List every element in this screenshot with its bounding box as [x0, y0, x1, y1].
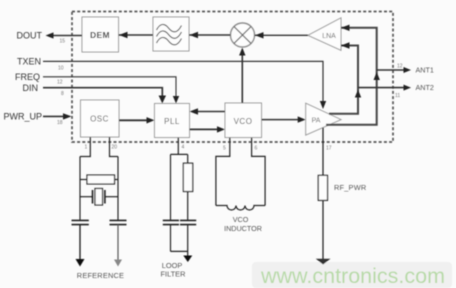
svg-text:17: 17 — [326, 146, 332, 152]
label REFERENCE — [77, 271, 124, 280]
block OSC — [81, 100, 120, 137]
pin 1 — [85, 145, 88, 151]
svg-text:12: 12 — [397, 64, 403, 70]
block DEM — [82, 17, 119, 52]
ground RF_PWR — [316, 259, 331, 265]
svg-text:ANT2: ANT2 — [416, 83, 434, 92]
chip dashed border — [72, 12, 393, 143]
wire ANT2 with arrow — [358, 85, 411, 91]
label RF_PWR — [334, 183, 366, 192]
resistor loop filter — [183, 163, 192, 191]
wire loop filter right column upper — [187, 154, 189, 163]
ground reference left — [76, 259, 85, 267]
label DOUT — [17, 31, 43, 41]
svg-text:DEM: DEM — [90, 30, 110, 40]
wire loop filter top tee — [171, 153, 188, 155]
wire loop filter left column — [170, 154, 172, 220]
wire RF_PWR pin from PA — [322, 128, 324, 176]
wire PLL pin 4 — [177, 138, 179, 155]
wire PLL to VCO with arrow — [190, 126, 226, 132]
svg-text:TXEN: TXEN — [17, 57, 41, 67]
block filter (bandpass) — [153, 17, 189, 51]
pin 11 (ANT2) — [395, 93, 400, 99]
svg-text:REFERENCE: REFERENCE — [77, 271, 124, 280]
wire TXEN to PA — [43, 61, 326, 109]
wire PWR_UP arrow into chip — [43, 113, 72, 119]
pin 6 — [255, 146, 258, 152]
wire OSC to PLL with arrow — [119, 117, 155, 123]
svg-text:ANT1: ANT1 — [416, 66, 434, 75]
pin 12 (ANT1) — [397, 64, 403, 70]
arrow up into ANT1 node — [374, 72, 380, 80]
svg-text:INDUCTOR: INDUCTOR — [224, 224, 262, 233]
pin 8 — [61, 91, 64, 97]
capacitor loop filter left — [163, 220, 179, 251]
svg-text:18: 18 — [57, 120, 63, 126]
label DIN — [23, 83, 39, 93]
svg-text:20: 20 — [112, 145, 118, 151]
label VCO INDUCTOR — [224, 215, 262, 233]
capacitor reference left — [72, 220, 89, 259]
inductor VCO (coil) — [216, 206, 265, 211]
svg-text:VCO: VCO — [233, 215, 249, 224]
label ANT2 — [416, 83, 434, 92]
resistor RF_PWR — [318, 175, 327, 200]
svg-text:FREQ: FREQ — [15, 72, 40, 82]
svg-text:4: 4 — [182, 145, 185, 151]
svg-text:5: 5 — [223, 146, 226, 152]
wire PA output lower to ANT1 column — [326, 28, 377, 125]
pin 18 — [57, 120, 63, 126]
pin 15 — [60, 39, 66, 45]
wire FREQ to PLL — [43, 77, 179, 104]
watermark text www.cntronics.com — [260, 264, 445, 288]
pin 5 — [223, 146, 226, 152]
wire DOUT with arrow — [46, 32, 83, 38]
svg-text:11: 11 — [395, 93, 400, 99]
block VCO — [225, 103, 262, 138]
wire loop filter bottom join — [171, 250, 188, 252]
wire VCO to PLL feedback with arrow — [190, 108, 226, 114]
wire loop filter right column lower — [187, 192, 189, 221]
wire VCO pin 5 — [216, 138, 230, 206]
svg-text:15: 15 — [60, 39, 66, 45]
wire OSC pin 1 stub — [80, 137, 90, 157]
label LOOP FILTER — [161, 261, 186, 278]
svg-text:12: 12 — [57, 80, 63, 86]
wire PA output upper to ANT2 column — [329, 46, 358, 114]
svg-text:8: 8 — [61, 91, 64, 97]
svg-text:10: 10 — [58, 66, 64, 72]
arrow up into ANT2 node — [355, 90, 361, 98]
svg-text:PWR_UP: PWR_UP — [3, 112, 42, 122]
svg-text:PLL: PLL — [164, 117, 180, 126]
svg-text:OSC: OSC — [90, 115, 109, 124]
capacitor reference right — [110, 220, 127, 259]
arrow into LNA upper input — [341, 25, 350, 31]
wire reference right column upper — [117, 157, 119, 221]
svg-text:FILTER: FILTER — [161, 269, 186, 278]
label TXEN — [17, 57, 41, 67]
label FREQ — [15, 72, 40, 82]
ground loop filter — [183, 256, 192, 263]
wire LNA to mixer with arrow — [255, 32, 309, 38]
wire ANT1 with arrow — [377, 67, 411, 73]
wire OSC pin 2 stub — [110, 137, 119, 157]
svg-text:DOUT: DOUT — [17, 31, 43, 41]
svg-text:DIN: DIN — [23, 83, 39, 93]
wire DIN to PLL — [43, 88, 166, 104]
svg-text:www.cntronics.com: www.cntronics.com — [260, 264, 445, 288]
wire VCO to mixer with arrow — [239, 48, 245, 104]
resistor reference (horizontal) — [80, 175, 118, 184]
wire RF_PWR to ground — [322, 200, 324, 259]
wire VCO pin 6 — [252, 138, 266, 206]
block PLL — [155, 104, 190, 138]
pin 17 — [326, 146, 332, 152]
wire mixer to filter with arrow — [189, 32, 231, 38]
svg-text:PA: PA — [312, 118, 321, 125]
ground reference right — [114, 260, 122, 267]
crystal X1 — [80, 189, 118, 206]
watermark band — [252, 262, 452, 288]
pin 2 — [112, 145, 118, 151]
pin 10 — [58, 66, 64, 72]
mixer — [231, 23, 255, 47]
label PWR_UP — [3, 112, 42, 122]
amplifier LNA — [308, 18, 341, 51]
pin 12 — [57, 80, 63, 86]
wire reference left column upper — [79, 157, 81, 221]
svg-text:LNA: LNA — [322, 33, 336, 40]
capacitor loop filter right — [180, 220, 196, 256]
svg-text:1: 1 — [85, 145, 88, 151]
arrow into LNA lower input — [341, 42, 350, 48]
pin 4 — [182, 145, 185, 151]
amplifier PA — [306, 103, 341, 135]
label ANT1 — [416, 66, 434, 75]
svg-text:6: 6 — [255, 146, 258, 152]
svg-text:VCO: VCO — [234, 117, 253, 126]
wire filter to DEM with arrow — [119, 32, 154, 38]
wire VCO to PA with arrow — [262, 116, 306, 122]
svg-text:RF_PWR: RF_PWR — [334, 183, 366, 192]
